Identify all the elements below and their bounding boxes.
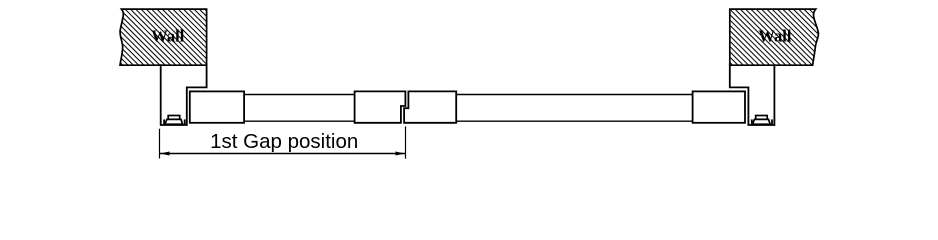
panel 2 top rail line [456, 94, 692, 96]
svg-text:Wall: Wall [758, 27, 791, 46]
left glide cap [168, 116, 180, 120]
right track lip outer [771, 119, 773, 125]
right track lip inner [751, 119, 753, 125]
right end stile of panel 2 [693, 91, 745, 122]
panel 1 top rail line [244, 94, 355, 96]
panel 2 bottom rail line [456, 120, 692, 122]
right glide base [753, 119, 771, 124]
wall right (hatched section with break line on right) [730, 9, 819, 65]
right frame jamb profile [730, 64, 775, 125]
wall left (hatched section with break line on left) [120, 9, 207, 65]
right glide cap [756, 116, 768, 120]
left track lip inner [163, 119, 165, 125]
dimension arrow left [160, 152, 170, 156]
dimension arrow right [396, 152, 406, 156]
svg-text:1st Gap position: 1st Gap position [210, 130, 358, 153]
meeting stile of panel 2 (stepped left edge) [404, 91, 456, 122]
dimension extension line right [405, 127, 407, 159]
left glide base [165, 119, 183, 124]
left frame jamb profile [161, 64, 207, 125]
dimension line [160, 153, 405, 155]
dimension extension line left [159, 129, 161, 159]
left end stile of panel 1 [190, 91, 244, 122]
left track lip outer [184, 119, 186, 125]
meeting stile of panel 1 (stepped right edge) [355, 91, 406, 122]
panel 1 bottom rail line [244, 120, 355, 122]
svg-text:Wall: Wall [151, 27, 184, 46]
